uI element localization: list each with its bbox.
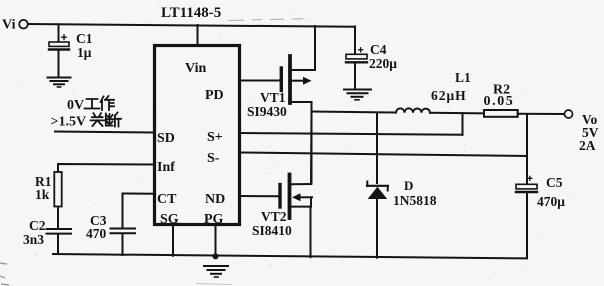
svg-text:3n3: 3n3: [23, 232, 44, 247]
svg-text:0V: 0V: [67, 98, 84, 113]
wire switch node to L1: [312, 112, 397, 113]
wire C2 to bottom rail: [57, 235, 59, 254]
wire S+ junction: [462, 113, 464, 135]
svg-text:S-: S-: [207, 151, 220, 166]
wire bottom rail: [53, 254, 527, 258]
svg-text:1k: 1k: [35, 187, 50, 202]
svg-text:LT1148-5: LT1148-5: [161, 5, 221, 21]
svg-text:VT1: VT1: [260, 90, 286, 105]
wire C1 branch: [58, 24, 60, 42]
svg-text:2A: 2A: [579, 138, 596, 153]
svg-text:470μ: 470μ: [537, 194, 565, 209]
wire SD input: [55, 132, 154, 133]
svg-text:220μ: 220μ: [369, 56, 397, 71]
wire VT2 source to bottom rail: [310, 207, 312, 258]
svg-text:SI9430: SI9430: [247, 104, 287, 119]
capacitor C2: [47, 229, 72, 234]
transistor VT2 SI8410: [280, 175, 312, 219]
wire Inf to R1: [58, 164, 154, 172]
svg-text:PD: PD: [205, 88, 224, 103]
svg-text:CT: CT: [157, 192, 177, 207]
wire top rail Vin: [28, 24, 355, 27]
svg-text:C1: C1: [76, 31, 93, 46]
svg-text:SD: SD: [157, 131, 175, 146]
wire SG to bottom rail: [172, 225, 174, 256]
wire diode branch: [376, 113, 378, 183]
svg-text:SG: SG: [160, 212, 179, 227]
IC U1 LT1148-5: [155, 46, 240, 225]
svg-text:C4: C4: [370, 42, 387, 57]
svg-text:0.05: 0.05: [484, 94, 515, 109]
transistor VT1 SI9430: [281, 56, 315, 112]
inductor L1: [396, 108, 430, 112]
wire C5 to bottom rail: [526, 194, 528, 259]
svg-text:C2: C2: [29, 218, 46, 233]
wire C4 to ground: [354, 64, 356, 89]
resistor R2: [484, 110, 518, 117]
svg-text:VT2: VT2: [261, 209, 287, 224]
capacitor C3: [111, 229, 136, 234]
svg-text:470: 470: [86, 226, 107, 241]
wire VT1 source to top rail: [314, 26, 316, 70]
junction dot PG ground: [213, 253, 219, 259]
terminal Vi: [19, 20, 28, 29]
capacitor C5: [516, 176, 537, 192]
wire L1 to R2: [430, 112, 484, 115]
wire output to C5: [526, 114, 528, 184]
terminal Vo: [565, 110, 573, 118]
capacitor C1: [49, 35, 69, 50]
label 1.5V guanduan: [51, 113, 122, 130]
ground below C1: [48, 78, 71, 88]
wire PD to VT1 gate: [240, 80, 280, 82]
svg-text:62μH: 62μH: [431, 88, 467, 103]
svg-text:SI8410: SI8410: [252, 223, 292, 238]
wire R1 to C2: [57, 207, 59, 229]
diode D 1N5818: [367, 182, 388, 200]
wire IC Vin to top rail: [197, 25, 199, 45]
svg-text:C5: C5: [546, 175, 563, 190]
wire C4 branch: [354, 27, 356, 55]
wire diode anode to bottom rail: [376, 199, 378, 258]
wire S+ sense: [240, 133, 463, 135]
capacitor C4: [346, 48, 367, 63]
wire PG to ground: [215, 225, 217, 257]
wire S- sense: [240, 153, 527, 157]
svg-text:Vin: Vin: [185, 61, 206, 76]
svg-text:PG: PG: [204, 212, 224, 227]
svg-text:Inf: Inf: [157, 160, 175, 175]
wire CT to C3: [123, 194, 155, 228]
wire C3 to bottom rail: [122, 234, 124, 255]
svg-text:D: D: [404, 178, 413, 193]
svg-text:Vi: Vi: [2, 18, 16, 33]
svg-text:1μ: 1μ: [77, 45, 92, 60]
ground below C4: [344, 90, 371, 100]
wire switch node column: [311, 112, 313, 184]
wire ND to VT2 gate: [240, 195, 278, 197]
svg-text:>1.5V: >1.5V: [51, 115, 87, 130]
label 0V gongzuo: [67, 96, 114, 113]
svg-text:1N5818: 1N5818: [393, 193, 437, 208]
wire VT2 drain to switch node: [310, 112, 313, 185]
ground below PG: [204, 266, 228, 277]
wire C1 to ground: [58, 51, 60, 77]
resistor R1: [54, 172, 61, 207]
wire R2 to output terminal: [518, 113, 564, 115]
svg-text:L1: L1: [455, 70, 471, 85]
svg-text:S+: S+: [207, 130, 223, 145]
svg-text:ND: ND: [205, 192, 225, 207]
